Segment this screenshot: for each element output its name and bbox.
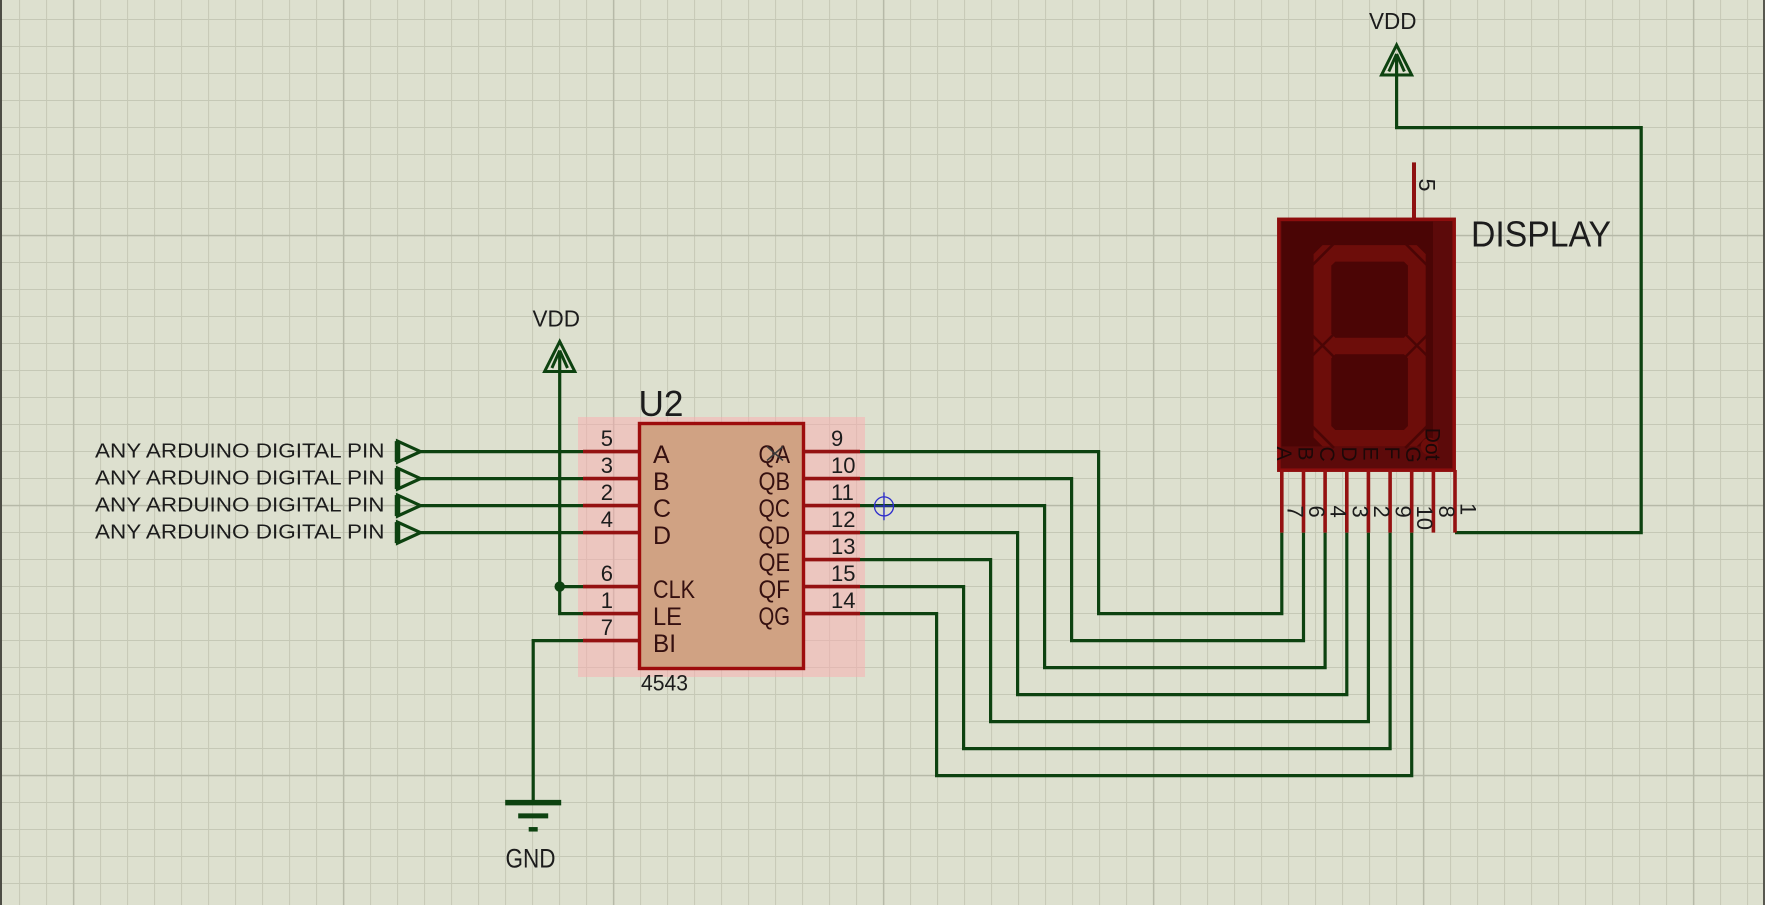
svg-text:A: A [1272, 447, 1295, 461]
svg-text:QC: QC [759, 495, 791, 523]
svg-text:DISPLAY: DISPLAY [1471, 214, 1611, 255]
power terminal VDD (top right) [1382, 45, 1412, 75]
svg-text:B: B [653, 468, 670, 496]
svg-text:4: 4 [1326, 506, 1351, 518]
svg-text:BI: BI [653, 630, 676, 658]
svg-text:C: C [653, 495, 671, 523]
pin QE stub (pin 13) [804, 558, 861, 562]
display pin C stub [1323, 470, 1327, 533]
wire input row 3 to pin C [421, 504, 584, 507]
digit bottom inner window [1331, 354, 1408, 430]
svg-text:ANY ARDUINO DIGITAL PIN: ANY ARDUINO DIGITAL PIN [95, 522, 385, 544]
wire VDD to display common anode pin 1 [1397, 54, 1642, 533]
wire QF to display pin F [860, 533, 1390, 749]
svg-text:2: 2 [1369, 506, 1394, 518]
svg-text:1: 1 [601, 588, 613, 613]
svg-text:C: C [1315, 447, 1338, 462]
svg-text:4543: 4543 [641, 671, 688, 696]
svg-text:9: 9 [1391, 506, 1416, 518]
input terminal arrow 1 [398, 441, 421, 462]
pin BI stub (pin 7) [583, 639, 640, 643]
pin LE stub (pin 1) [583, 612, 640, 616]
svg-text:ANY ARDUINO DIGITAL PIN: ANY ARDUINO DIGITAL PIN [95, 468, 385, 490]
IC U2 4543 body [640, 424, 804, 669]
svg-text:Dot: Dot [1421, 428, 1444, 461]
display pin 5 stub (top) [1412, 162, 1416, 219]
svg-text:VDD: VDD [1369, 8, 1417, 34]
pin QC stub (pin 11) [804, 504, 861, 508]
svg-text:VDD: VDD [533, 306, 581, 332]
pin A stub (pin 5) [583, 450, 640, 454]
wire input row 1 to pin A [421, 450, 584, 453]
svg-text:10: 10 [831, 453, 855, 478]
svg-text:1: 1 [1456, 503, 1481, 515]
svg-text:13: 13 [831, 534, 855, 559]
wire QE to display pin E [860, 533, 1368, 722]
digit top inner window [1331, 262, 1408, 338]
wire QA to display pin A [860, 452, 1282, 614]
svg-text:B: B [1294, 447, 1317, 461]
selection highlight around U2 [578, 417, 865, 677]
svg-text:4: 4 [601, 507, 613, 532]
svg-text:QF: QF [759, 576, 791, 604]
svg-text:3: 3 [601, 453, 613, 478]
svg-text:5: 5 [601, 426, 613, 451]
display pin F stub [1388, 470, 1392, 533]
display pin A stub [1280, 470, 1284, 533]
segment gap A/B [1405, 244, 1427, 266]
7-segment display body [1279, 219, 1454, 470]
pin CLK stub (pin 6) [583, 585, 640, 589]
svg-text:9: 9 [831, 426, 843, 451]
svg-text:7: 7 [1282, 506, 1307, 518]
svg-text:3: 3 [1347, 506, 1372, 518]
svg-text:QB: QB [759, 468, 791, 496]
segment gaps B/G/C (right X) [1406, 335, 1428, 357]
display pin D stub [1345, 470, 1349, 533]
component origin X marker on U2 [767, 447, 783, 461]
svg-text:F: F [1380, 447, 1403, 460]
svg-text:6: 6 [601, 561, 613, 586]
input terminal arrow 2 [398, 468, 421, 489]
svg-text:15: 15 [831, 561, 855, 586]
pin QA stub (pin 9) [804, 450, 861, 454]
svg-text:D: D [1337, 447, 1360, 462]
svg-text:12: 12 [831, 507, 855, 532]
wire QC to display pin C [860, 506, 1325, 668]
segment gap D/C [1405, 426, 1427, 448]
right sheet border [1763, 0, 1765, 905]
decimal point segment [1421, 438, 1438, 455]
pin D stub (pin 4) [583, 531, 640, 535]
input terminal arrow 3 [398, 495, 421, 516]
svg-text:6: 6 [1304, 506, 1329, 518]
pin B stub (pin 3) [583, 477, 640, 481]
segment gap A/F [1312, 244, 1334, 266]
svg-text:CLK: CLK [653, 576, 695, 604]
wire QB to display pin B [860, 479, 1304, 641]
pin QB stub (pin 10) [804, 477, 861, 481]
display pin Dot stub [1432, 470, 1436, 533]
left sheet border [0, 0, 2, 905]
svg-text:QE: QE [759, 549, 791, 577]
segment gaps F/G/E (left X) [1312, 335, 1334, 357]
svg-text:E: E [1358, 447, 1381, 461]
display pin B stub [1302, 470, 1306, 533]
pin QD stub (pin 12) [804, 531, 861, 535]
input terminal arrow 4 [398, 522, 421, 543]
svg-text:ANY ARDUINO DIGITAL PIN: ANY ARDUINO DIGITAL PIN [95, 441, 385, 463]
pin C stub (pin 2) [583, 504, 640, 508]
svg-text:U2: U2 [639, 383, 684, 424]
wire BI to GND [533, 641, 583, 802]
pin QG stub (pin 14) [804, 612, 861, 616]
ground symbol [505, 803, 561, 830]
svg-text:14: 14 [831, 588, 855, 613]
svg-text:7: 7 [601, 615, 613, 640]
segment gap D/E [1312, 426, 1334, 448]
svg-text:QG: QG [759, 603, 791, 631]
pin QF stub (pin 15) [804, 585, 861, 589]
segment ring (A-G, lit-off lighter red) [1314, 245, 1426, 446]
svg-text:5: 5 [1414, 179, 1440, 192]
svg-text:2: 2 [601, 480, 613, 505]
wire input row 2 to pin B [421, 477, 584, 480]
svg-text:11: 11 [831, 480, 854, 505]
junction dot at CLK [555, 581, 565, 591]
svg-text:LE: LE [653, 603, 682, 631]
svg-text:D: D [653, 522, 671, 550]
wire QD to display pin D [860, 533, 1347, 695]
svg-text:QD: QD [759, 522, 791, 550]
digit background (darker) [1282, 222, 1433, 447]
wire QG to display pin G [860, 533, 1412, 776]
blue origin marker on wire QC [874, 492, 894, 520]
power terminal VDD (left) [545, 342, 575, 372]
svg-text:GND: GND [506, 844, 556, 874]
svg-text:8: 8 [1434, 506, 1459, 518]
svg-text:10: 10 [1412, 506, 1437, 530]
svg-text:ANY ARDUINO DIGITAL PIN: ANY ARDUINO DIGITAL PIN [95, 495, 385, 517]
wire VDD down to CLK/LE [560, 351, 583, 614]
display pin 1 stub [1453, 470, 1457, 533]
wire input row 4 to pin D [421, 531, 584, 534]
display pin E stub [1367, 470, 1371, 533]
svg-text:A: A [653, 441, 670, 469]
display pin G stub [1410, 470, 1414, 533]
